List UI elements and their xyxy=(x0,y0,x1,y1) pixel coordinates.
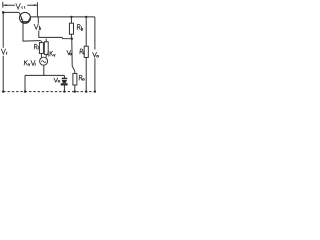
Vcc dimension line right with arrowhead xyxy=(27,4,37,6)
wire Rb bottom stub xyxy=(70,34,72,39)
transistor Q1 base bar xyxy=(21,21,29,23)
label Ri xyxy=(34,44,38,49)
node dot gnd x64 xyxy=(63,90,65,92)
node dot gnd x25 xyxy=(24,90,26,92)
label Rk xyxy=(80,49,85,54)
Vcc dimension left end bar xyxy=(2,2,4,8)
node: top-left junction dot xyxy=(2,11,5,14)
wire: right rail upper xyxy=(94,17,96,50)
wire: ground dashed rail xyxy=(3,91,95,93)
label Vs on left rail xyxy=(1,49,7,55)
node dot Rk top xyxy=(85,16,87,18)
label Re xyxy=(79,75,84,80)
node dot gnd left corner xyxy=(2,90,4,92)
label Vo xyxy=(93,52,99,57)
node dot base junction xyxy=(71,38,73,40)
capacitor Ce top plate xyxy=(62,78,68,79)
wire: left drop to ground rail xyxy=(24,75,26,91)
label (Kv xyxy=(48,51,56,56)
wire: right rail lower xyxy=(94,58,96,91)
wire Ri to source xyxy=(40,53,42,57)
label Vcc xyxy=(16,3,25,9)
wire K box to source xyxy=(45,54,47,57)
wire Rb top stub xyxy=(70,17,72,23)
resistor Ri stub xyxy=(40,41,42,43)
AC source circle xyxy=(40,57,48,65)
label Rb xyxy=(77,24,83,30)
wire Vb chain lower xyxy=(38,30,40,37)
wire: source bottom stem xyxy=(43,66,45,76)
Vcc dimension line left with arrowhead xyxy=(3,4,15,6)
label Ve on emitter wire xyxy=(67,50,72,55)
Vcc dimension right end bar xyxy=(36,2,38,17)
wire Rk lower xyxy=(85,57,87,91)
resistor Rb box xyxy=(69,23,73,34)
resistor Rk box xyxy=(84,46,88,57)
label KvVs xyxy=(24,60,36,65)
label Vb xyxy=(34,24,41,30)
node dot gnd x75 xyxy=(74,90,76,92)
wire: emitter wire to transistor xyxy=(3,11,19,13)
capacitor Ce body xyxy=(62,80,68,83)
resistor Ri box xyxy=(39,43,43,54)
wire: collector rail xyxy=(31,16,95,18)
AC source tilde xyxy=(41,61,46,63)
node dot gnd right corner xyxy=(94,90,96,92)
label Ve at capacitor xyxy=(54,78,60,82)
resistor Re box xyxy=(73,73,77,85)
wire: junction down to Re xyxy=(72,39,75,74)
wire Rk upper xyxy=(85,17,87,46)
wire: base lead down xyxy=(23,23,41,41)
node dot gnd x86 xyxy=(85,90,87,92)
wire: Ce bottom stem xyxy=(63,85,65,91)
wire: lower horizontal xyxy=(25,74,64,76)
wire Re bottom stub xyxy=(74,85,76,92)
node dot Rb top xyxy=(70,16,72,18)
wire: left rail upper segment xyxy=(2,12,4,47)
resistor K box xyxy=(44,42,48,55)
capacitor Ce stem xyxy=(63,75,65,78)
transistor Q1 emitter lead with arrow xyxy=(19,13,23,22)
wire Vb drop from rail xyxy=(37,17,39,24)
transistor Q1 collector lead xyxy=(28,17,31,21)
resistor K stub top xyxy=(45,39,47,42)
wire: left rail lower segment xyxy=(2,56,4,92)
wire: base bias horizontal xyxy=(39,37,72,38)
transistor Q1 circle xyxy=(20,12,31,23)
